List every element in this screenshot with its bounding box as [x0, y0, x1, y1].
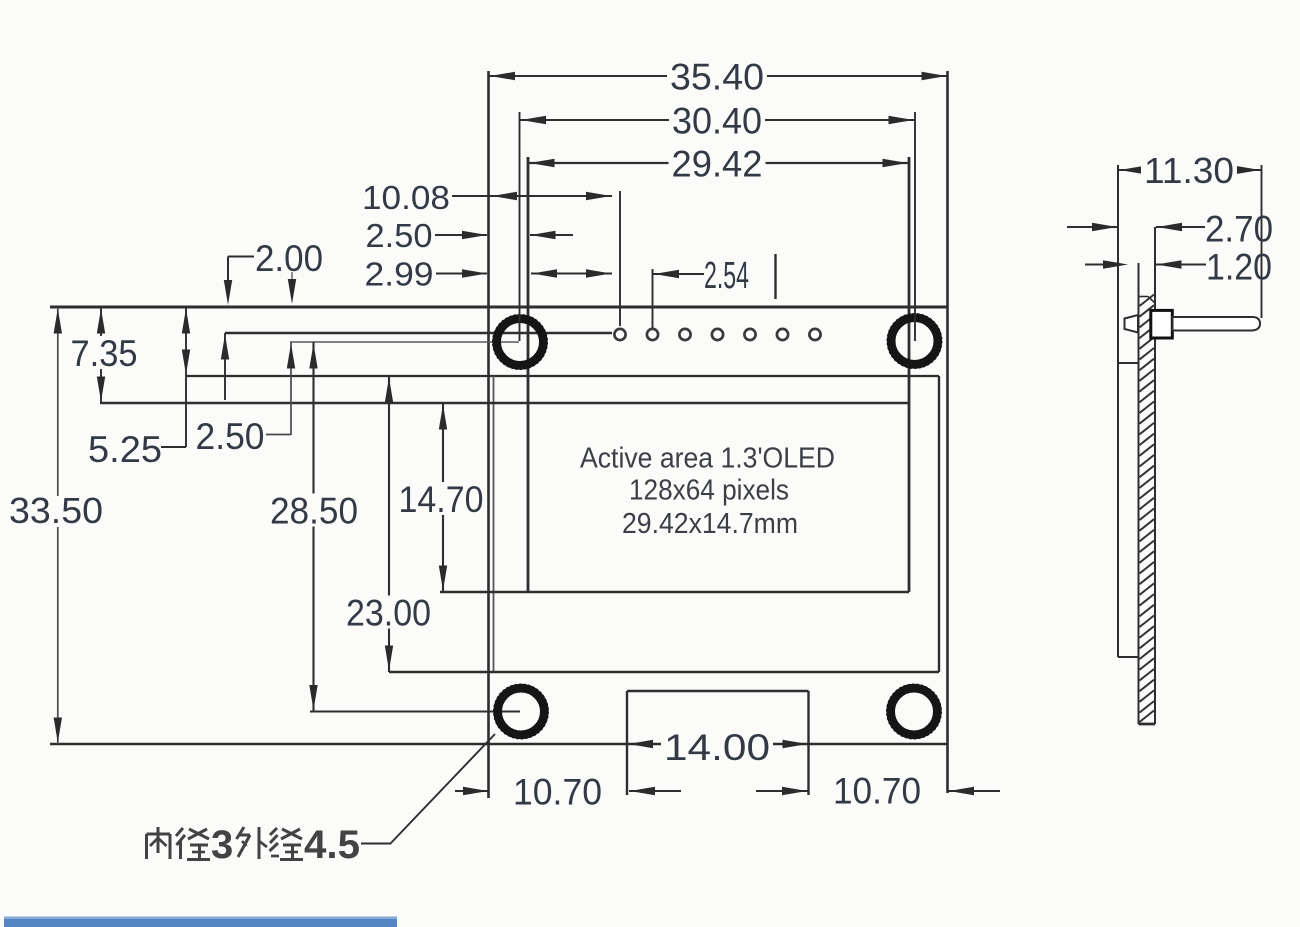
svg-text:29.42x14.7mm: 29.42x14.7mm	[622, 508, 798, 540]
OLED glass top edge	[186, 375, 939, 377]
svg-text:2.70: 2.70	[1205, 209, 1273, 250]
dimension 10.08 extension	[619, 191, 621, 326]
mounting hole centre line top	[290, 341, 519, 343]
connector outline top edge	[627, 690, 809, 692]
text cursor bar	[774, 254, 776, 299]
PCB outline bottom edge	[50, 743, 948, 745]
dimension 2.99	[365, 256, 613, 293]
PCB outline right edge	[946, 71, 949, 793]
dimension 2.54 extension	[652, 269, 654, 328]
svg-text:2.54: 2.54	[704, 255, 749, 297]
OLED glass bottom edge	[389, 671, 939, 674]
mounting hole bottom-left	[494, 684, 548, 738]
svg-text:28.50: 28.50	[270, 491, 358, 532]
dimension 30.40 extension left	[519, 112, 521, 341]
connector outline right edge	[807, 691, 809, 795]
dimension 23.00	[343, 376, 434, 672]
svg-text:2.50: 2.50	[366, 217, 433, 254]
dimension 33.50	[9, 307, 103, 744]
blue banner bottom-left	[4, 917, 397, 927]
side view pcb right edge	[1154, 227, 1156, 724]
svg-text:29.42: 29.42	[672, 144, 763, 185]
side view pcb bottom edge	[1139, 723, 1156, 726]
active area label line 2	[629, 475, 789, 507]
dimension 5.25	[88, 429, 186, 470]
svg-text:35.40: 35.40	[670, 57, 764, 98]
active area label line 1	[580, 443, 835, 475]
dimension 2.50 left	[196, 416, 292, 457]
active area bottom edge	[440, 591, 909, 594]
leader line to mounting hole	[361, 734, 495, 844]
mounting hole centre line bottom	[310, 711, 520, 713]
dimension 10.70 right	[756, 771, 1000, 812]
side view glass front edge	[1117, 165, 1119, 657]
svg-text:2.99: 2.99	[365, 256, 434, 293]
svg-text:Active area 1.3'OLED: Active area 1.3'OLED	[580, 443, 835, 475]
svg-text:5.25: 5.25	[88, 429, 162, 470]
svg-text:14.70: 14.70	[399, 479, 484, 520]
mounting hole top-right	[887, 314, 941, 368]
dimension 2.70	[1067, 209, 1273, 250]
side view header body	[1151, 310, 1173, 338]
dimension 14.70	[396, 403, 487, 592]
svg-text:23.00: 23.00	[346, 593, 431, 634]
dimension 35.40	[489, 57, 948, 98]
note text nei-jing-3 wai-jing-4.5	[147, 823, 361, 867]
pin row extension tick	[221, 333, 229, 400]
svg-text:10.70: 10.70	[833, 771, 921, 812]
PCB outline top edge	[50, 306, 948, 309]
mounting hole bottom-right	[887, 684, 941, 738]
dimension 11.30 extension right	[1261, 165, 1263, 318]
svg-text:4.5: 4.5	[304, 823, 360, 867]
side view pcb hatching	[1140, 295, 1155, 723]
svg-text:3: 3	[211, 823, 233, 867]
svg-text:128x64 pixels: 128x64 pixels	[629, 475, 789, 507]
active area right edge / 29.42 extension	[908, 157, 911, 592]
mounting hole top-left	[493, 315, 547, 369]
dimension 30.40 extension right	[914, 112, 916, 341]
svg-text:10.08: 10.08	[362, 179, 450, 216]
dimension 30.40	[520, 101, 916, 142]
active area top edge	[100, 402, 909, 404]
dimension 5.25 extension	[182, 307, 190, 447]
dimension 14.00	[628, 727, 808, 768]
dimension 10.08	[362, 179, 612, 216]
svg-text:30.40: 30.40	[672, 101, 762, 142]
pin holes row	[614, 329, 820, 340]
svg-text:1.20: 1.20	[1206, 247, 1272, 288]
side view pcb top step	[1139, 297, 1156, 304]
OLED glass right edge	[938, 376, 940, 672]
side view solder bump	[1125, 315, 1139, 333]
active area left edge / 29.42 extension	[527, 157, 530, 592]
svg-text:2.50: 2.50	[196, 416, 265, 457]
PCB outline left edge	[487, 71, 490, 798]
dimension 2.54	[653, 255, 749, 297]
svg-text:11.30: 11.30	[1144, 150, 1234, 191]
active area label line 3	[622, 508, 798, 540]
dimension 11.30	[1118, 150, 1262, 191]
side view glass bottom edge	[1118, 656, 1139, 658]
dimension 2.50 left extension	[287, 342, 295, 435]
dimension 7.35	[68, 307, 141, 403]
dimension 2.00	[224, 238, 323, 305]
dimension 29.42	[528, 144, 909, 185]
svg-text:7.35: 7.35	[71, 333, 138, 374]
side view pcb left edge	[1138, 263, 1140, 724]
svg-text:33.50: 33.50	[9, 490, 103, 531]
connector outline left edge	[626, 691, 628, 795]
dimension 28.50	[267, 342, 361, 712]
dimension 2.50 top	[366, 217, 574, 254]
side view header pin	[1173, 317, 1261, 331]
pin row reference line	[225, 332, 612, 335]
svg-text:14.00: 14.00	[664, 727, 770, 768]
svg-text:10.70: 10.70	[513, 772, 602, 813]
side view glass divider	[1118, 362, 1139, 364]
dimension 1.20	[1085, 247, 1272, 288]
dimension 10.70 left	[455, 772, 681, 813]
svg-text:2.00: 2.00	[255, 238, 323, 279]
OLED glass left edge	[493, 376, 495, 672]
